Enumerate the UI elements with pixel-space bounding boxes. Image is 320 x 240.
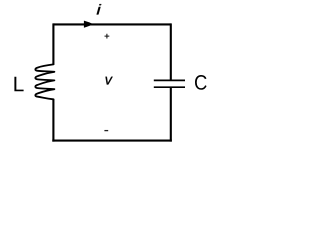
wire bottom [52,140,172,142]
wire left lower [52,99,54,142]
wire top [53,23,171,25]
label + (polarity top) [105,34,110,39]
capacitor C top plate [154,79,185,81]
label i (current) [97,4,102,14]
current arrow on top wire [84,21,93,28]
wire right upper [170,23,172,80]
label L (inductor) [14,77,23,91]
capacitor C bottom plate [154,86,185,88]
label - (polarity bottom) [104,130,108,132]
label v (voltage) [106,77,113,85]
wire right lower [170,88,172,142]
label C (capacitor) [195,75,207,90]
wire left upper [52,23,54,64]
inductor L coil [35,64,54,99]
